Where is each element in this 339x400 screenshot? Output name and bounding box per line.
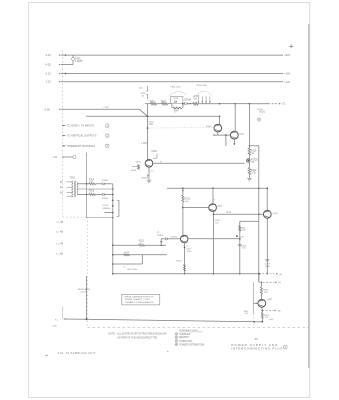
- wire y245.2: [113, 244, 139, 246]
- svg-text:A: A: [157, 231, 159, 234]
- thermistor RT320: [247, 159, 250, 162]
- ground below Q303: [147, 179, 151, 181]
- terminal row TO VERTICAL OUTPUTS: [62, 135, 64, 137]
- wire x86.5 vertical upper segment: [86, 153, 88, 218]
- wire bus +12V y81.7: [61, 81, 282, 83]
- stub x142.3: [141, 255, 143, 264]
- junction into bus: [147, 104, 149, 117]
- terminal stub above 9-1B: [62, 307, 64, 319]
- Q304 emitter down with capacitor: [266, 218, 268, 273]
- jumper note box: [122, 294, 160, 305]
- svg-text:R310: R310: [176, 261, 182, 263]
- svg-text:4.7: 4.7: [174, 111, 178, 113]
- svg-text:CR304: CR304: [141, 177, 148, 179]
- svg-text:a-C: a-C: [56, 222, 60, 224]
- svg-text:+ 2.7: + 2.7: [149, 170, 155, 172]
- svg-text:P302 J302: P302 J302: [197, 85, 208, 87]
- Q305 collector from rail: [212, 188, 214, 204]
- svg-text:100n: 100n: [265, 266, 271, 268]
- svg-text:Q304: Q304: [273, 213, 279, 215]
- svg-text:7-C: 7-C: [56, 254, 60, 256]
- svg-text:C302: C302: [151, 151, 157, 153]
- svg-text:POWER DISTRIBUTION: POWER DISTRIBUTION: [179, 344, 204, 346]
- chassis boundary dash-dot vertical left: [62, 50, 64, 217]
- svg-text:3-1C: 3-1C: [46, 72, 52, 76]
- +10V rail sloping right: [87, 319, 255, 322]
- svg-text:CR312: CR312: [171, 237, 178, 239]
- svg-text:1-1C: 1-1C: [46, 80, 52, 84]
- svg-text:INTERLOCK: INTERLOCK: [179, 341, 192, 343]
- svg-text:4: 4: [167, 349, 169, 353]
- svg-text:180: 180: [264, 292, 268, 294]
- transistor Q303: [145, 160, 153, 168]
- svg-text:Q307: Q307: [267, 299, 273, 301]
- svg-text:MEMORY: MEMORY: [179, 337, 190, 339]
- vertical x239.8 corner down to rail: [239, 221, 241, 273]
- title circled number: [283, 345, 287, 349]
- Q302 collector up: [234, 104, 236, 132]
- secondary wire 1 y183.8: [77, 183, 89, 185]
- wire y264: [113, 263, 143, 265]
- diode CR318: [183, 103, 185, 105]
- wire down from series line x249.4: [248, 104, 250, 148]
- svg-text:4(2): 4(2): [139, 88, 143, 90]
- Q307 collector resistor: [260, 282, 262, 287]
- svg-text:e-C: e-C: [56, 243, 60, 245]
- svg-text:(4): (4): [279, 274, 282, 276]
- wire y282.2 arrow: [259, 281, 275, 283]
- ground below chain: [247, 178, 251, 180]
- svg-text:C313 100n: C313 100n: [127, 269, 138, 271]
- capacitor C316 on branch: [238, 243, 242, 245]
- connector bracket: [118, 200, 120, 216]
- Q302 emitter down: [233, 139, 235, 143]
- svg-text:4-1D: 4-1D: [46, 63, 52, 67]
- registration cross: [289, 44, 293, 48]
- wire down from emitter node: [225, 135, 227, 146]
- unregulated bus y116.3: [86, 115, 88, 118]
- Q307 emitter: [261, 307, 264, 310]
- svg-text:+10.5V: +10.5V: [102, 205, 109, 207]
- chassis boundary dash-dot jog: [63, 216, 87, 218]
- wire x86.5 vertical lower segment: [86, 276, 88, 319]
- wire bus end down to Q301: [219, 116, 221, 124]
- svg-text:1/4: 1/4: [141, 95, 144, 97]
- corner down x258.8 to y282.2: [258, 274, 260, 282]
- svg-text:10n: 10n: [242, 248, 245, 250]
- chassis boundary dash-dot vertical mid: [86, 217, 88, 328]
- connector pin tick upper x147.3: [146, 86, 148, 91]
- branch from long vertical y221.3: [240, 220, 259, 222]
- svg-text:CR302: CR302: [102, 180, 109, 182]
- svg-text:+7: +7: [123, 266, 126, 268]
- svg-text:IN EARLY CONFIGURATION: IN EARLY CONFIGURATION: [126, 301, 154, 304]
- svg-text:10u: 10u: [193, 99, 198, 101]
- legend row 4: [175, 343, 178, 346]
- svg-text:(2): (2): [278, 282, 281, 284]
- svg-text:INTERCONNECTING PLUG: INTERCONNECTING PLUG: [231, 347, 283, 351]
- relay K301 box: [171, 96, 183, 103]
- svg-text:50: 50: [252, 162, 255, 164]
- wire y254.8: [113, 254, 167, 256]
- svg-text:UNREG: UNREG: [103, 208, 111, 210]
- transistor Q307: [258, 299, 266, 307]
- svg-text:R321: R321: [260, 112, 266, 114]
- svg-text:9 C: 9 C: [55, 320, 59, 322]
- legend row 1: [175, 333, 178, 336]
- wire stub y64.5: [61, 64, 73, 66]
- svg-text:+30V: +30V: [284, 53, 290, 57]
- wire y217.6: [87, 217, 113, 219]
- connector pins dropping to line: [198, 97, 200, 104]
- svg-text:FIG. 10 SAMPLING UNIT: FIG. 10 SAMPLING UNIT: [58, 352, 96, 355]
- rail y188.2: [167, 187, 267, 189]
- svg-text:T301: T301: [70, 176, 76, 180]
- svg-text:2.2k: 2.2k: [252, 173, 257, 175]
- Q303 lower chain: [148, 167, 150, 170]
- svg-text:+10V: +10V: [269, 319, 275, 321]
- legend row 2: [175, 336, 178, 339]
- terminal row INTERRUPT BLANKING: [62, 145, 64, 147]
- transistor Q302: [230, 131, 238, 139]
- long vertical x258.8: [258, 146, 260, 282]
- dashed base line to Q301: [149, 127, 214, 129]
- svg-text:1k: 1k: [252, 153, 255, 155]
- Q306 emitter chain down: [184, 243, 186, 274]
- series line continues right: [219, 103, 221, 105]
- wire bus +15V y73.5: [61, 73, 282, 75]
- diode CR311 riser: [160, 239, 162, 245]
- svg-text:TO VERTICAL OUTPUTS: TO VERTICAL OUTPUTS: [67, 134, 97, 138]
- Q301 emitter down: [217, 132, 219, 135]
- legend row 3: [175, 340, 178, 343]
- svg-text:C 301: C 301: [104, 107, 109, 109]
- emitter wire y135.1: [213, 134, 215, 136]
- svg-text:10n: 10n: [149, 124, 154, 126]
- svg-text:+12V: +12V: [284, 80, 290, 84]
- svg-text:R303: R303: [131, 170, 137, 172]
- svg-text:CR305: CR305: [102, 198, 109, 200]
- svg-text:SS: SS: [255, 337, 259, 341]
- svg-text:SUPPLIES: SUPPLIES: [179, 334, 191, 336]
- transistor Q305: [209, 204, 217, 212]
- svg-text:R314: R314: [226, 212, 232, 214]
- Q307 base wire: [252, 282, 254, 303]
- resistor R319: [248, 148, 251, 155]
- svg-text:(7): (7): [282, 102, 285, 106]
- svg-text:C318: C318: [173, 98, 179, 100]
- svg-text:100n: 100n: [187, 251, 193, 253]
- Q304 base line y214.3: [213, 213, 263, 215]
- transistor Q301: [214, 124, 222, 132]
- svg-text:INTERRUPT BLANKING: INTERRUPT BLANKING: [67, 144, 95, 148]
- svg-text:10n: 10n: [215, 223, 219, 225]
- svg-text:+5V: +5V: [244, 313, 248, 315]
- svg-text:P301 J301: P301 J301: [171, 87, 182, 89]
- svg-text:AS PART OF THE ASSOCIATED TYP: AS PART OF THE ASSOCIATED TYPE: [118, 337, 158, 340]
- resistor R317b on branch: [239, 226, 241, 231]
- svg-text:THESE JUMPERS FITTED TO: THESE JUMPERS FITTED TO: [124, 296, 154, 298]
- wire bus +30V y55: [61, 54, 282, 56]
- svg-text:9d: 9d: [60, 192, 63, 194]
- transistor Q306: [181, 235, 188, 242]
- Q306 emitter line y238.8 right: [188, 238, 239, 240]
- svg-text:2 AMP: 2 AMP: [75, 59, 83, 63]
- svg-text:+ 305: + 305: [141, 143, 147, 145]
- svg-text:CR311: CR311: [157, 235, 164, 237]
- connector pin dots x112.8: [112, 199, 114, 201]
- right page border line: [308, 24, 310, 368]
- svg-text:+15V: +15V: [284, 72, 290, 76]
- svg-text:NOTE :- ALL (5) FOR STUFF EXT: NOTE :- ALL (5) FOR STUFF EXTRACTABLE MO…: [109, 332, 167, 335]
- transistor Q304 right: [263, 210, 271, 218]
- connector arc P301 dashed: [170, 92, 188, 96]
- left vertical x112.8 down to rail: [112, 184, 114, 274]
- svg-text:(3): (3): [278, 311, 281, 313]
- svg-text:4-1C: 4-1C: [46, 53, 52, 57]
- svg-text:Q305: Q305: [217, 206, 223, 208]
- wire bus down to Q303: [147, 116, 149, 159]
- svg-text:+10.5V: +10.5V: [80, 292, 87, 294]
- series supply line y103.7: [145, 103, 151, 105]
- node jog y212.6: [105, 212, 113, 214]
- +10V wire left arrow: [64, 318, 66, 320]
- jog to long vertical: [249, 145, 250, 146]
- Q306 collector with resistor from rail: [182, 188, 184, 195]
- svg-text:1.8k: 1.8k: [242, 230, 247, 232]
- connector pin tick lower x147.3: [146, 95, 148, 100]
- svg-text:9-1B: 9-1B: [53, 326, 58, 328]
- Q305 emitter long vertical: [212, 212, 214, 274]
- resistor R324: [261, 311, 263, 313]
- Q303 base resistor: [138, 165, 140, 170]
- resistor R320: [248, 168, 251, 175]
- secondary wire 2 y194.5: [77, 194, 89, 196]
- Q303 emitter line y163.3: [153, 162, 245, 164]
- rail y273.8: [113, 273, 259, 275]
- svg-text:5-1B: 5-1B: [45, 107, 51, 111]
- fuse F301: [72, 55, 74, 57]
- rail corner down x267.2: [266, 188, 268, 210]
- svg-text:RT1: RT1: [241, 237, 246, 239]
- wire y109.3 with diagonal into bus: [61, 108, 140, 110]
- svg-text:R312: R312: [124, 252, 130, 254]
- svg-text:2-D: 2-D: [53, 155, 57, 159]
- wire y189 center tap: [77, 188, 113, 190]
- Q306 base diode: [161, 238, 165, 240]
- svg-text:Q303: Q303: [135, 161, 141, 163]
- svg-text:REGULATED: REGULATED: [78, 288, 91, 291]
- svg-text:Q302: Q302: [239, 133, 245, 135]
- terminal row TO GATE INPUTS: [62, 125, 64, 127]
- svg-text:TO GATE + TV INPUTS: TO GATE + TV INPUTS: [67, 124, 94, 128]
- svg-text:+2: +2: [186, 245, 189, 247]
- transformer left terminal stubs: [67, 181, 73, 183]
- Q305 base line: [183, 207, 209, 209]
- connector arc P302 dashed: [196, 91, 212, 96]
- svg-text:b-C: b-C: [56, 232, 60, 234]
- wire y310.6 arrow: [262, 310, 274, 312]
- svg-text:10k: 10k: [185, 201, 189, 203]
- resistor R317 parallel below: [171, 103, 173, 108]
- svg-text:MODEL QUANTITY ONLY: MODEL QUANTITY ONLY: [125, 298, 151, 301]
- chassis boundary dash-dot bottom horizontal: [88, 327, 309, 329]
- svg-text:CR318: CR318: [184, 100, 192, 102]
